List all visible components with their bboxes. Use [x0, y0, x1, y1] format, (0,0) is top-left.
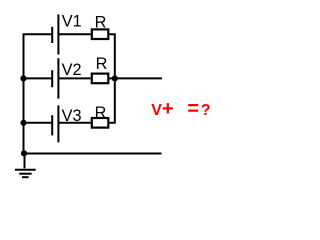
svg-text:V2: V2 — [62, 61, 82, 79]
svg-text:R: R — [96, 55, 108, 73]
svg-text:V1: V1 — [62, 12, 82, 30]
svg-text:V3: V3 — [62, 107, 82, 125]
svg-text:R: R — [95, 13, 107, 31]
svg-text:R: R — [95, 104, 107, 122]
